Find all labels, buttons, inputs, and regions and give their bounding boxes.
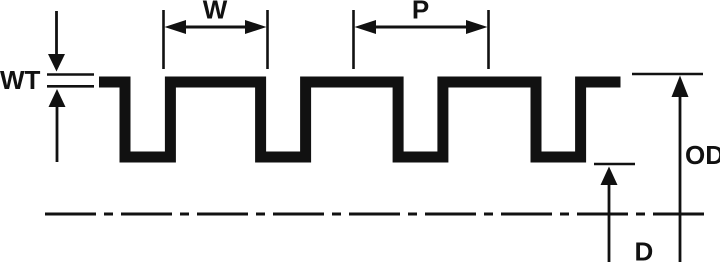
svg-text:W: W [203,0,228,25]
svg-text:P: P [412,0,429,25]
svg-text:OD: OD [685,140,720,170]
svg-text:D: D [635,237,654,262]
svg-text:WT: WT [0,65,41,95]
